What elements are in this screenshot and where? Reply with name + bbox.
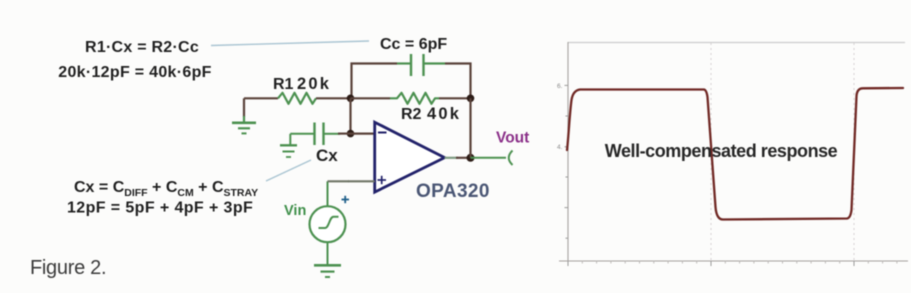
svg-text:R2: R2 — [401, 106, 422, 123]
node A junction — [347, 95, 355, 103]
ground G2 (left of Cx) — [280, 134, 297, 157]
wire feedback column — [469, 98, 471, 158]
node D junction (output) — [467, 154, 475, 162]
svg-text:Well-compensated response: Well-compensated response — [605, 141, 838, 161]
wire ground to Cx — [290, 133, 313, 135]
wire Vin to ground — [327, 242, 329, 265]
op-amp U1 OPA320 — [375, 122, 445, 192]
plus sign at Vin — [342, 196, 350, 203]
scope trace (well-compensated square wave) — [567, 88, 903, 220]
svg-text:OPA320: OPA320 — [416, 181, 490, 202]
wire node A to Cc left — [352, 64, 398, 99]
voltage source Vin — [310, 206, 346, 242]
ground G1 (left of R1) — [232, 98, 256, 133]
node B junction — [347, 130, 355, 138]
callout line to Cc label — [211, 41, 369, 46]
svg-text:4.: 4. — [557, 144, 563, 151]
svg-text:6.: 6. — [557, 83, 563, 90]
wire op-amp output — [445, 157, 458, 159]
wire Vin to plus input — [327, 181, 329, 206]
label R1 20k — [273, 75, 331, 93]
svg-text:12pF = 5pF + 4pF + 3pF: 12pF = 5pF + 4pF + 3pF — [67, 200, 253, 217]
svg-text:R1: R1 — [273, 76, 294, 93]
label R2 40k — [401, 105, 461, 123]
equation R1·Cx = R2·Cc — [85, 39, 199, 56]
svg-text:Vout: Vout — [496, 130, 529, 147]
svg-text:Cx = CDIFF + CCM + CSTRAY: Cx = CDIFF + CCM + CSTRAY — [74, 179, 258, 199]
wire R1 to node A — [316, 97, 351, 99]
ground G3 (below Vin) — [314, 265, 341, 277]
scope y-axis — [557, 42, 568, 261]
node C junction (R2 right) — [467, 95, 475, 103]
scope x-axis — [559, 261, 908, 266]
wire ground to R1 — [244, 97, 278, 99]
wire node A to R2 — [351, 97, 391, 99]
svg-text:R1·Cx = R2·Cc: R1·Cx = R2·Cc — [85, 39, 199, 56]
equation 20k·12pF = 40k·6pF — [58, 64, 211, 81]
wire node B to op-amp minus input — [351, 133, 375, 135]
capacitor C2 Cx — [315, 123, 324, 146]
wire R2 to output column — [439, 97, 471, 99]
scope gridline x=711 — [710, 43, 712, 260]
svg-text:40k: 40k — [427, 105, 461, 123]
resistor R1 — [278, 93, 316, 104]
svg-text:Cx: Cx — [316, 146, 338, 165]
wire Cc right to output column — [445, 64, 471, 99]
callout line to Cx label — [266, 160, 311, 181]
scope top gridline — [568, 42, 905, 44]
capacitor C1 Cc — [411, 54, 424, 76]
svg-text:20k: 20k — [297, 75, 331, 93]
wire Cx to node B — [325, 133, 341, 135]
wire lead Cc right — [425, 62, 446, 64]
wire node A down — [349, 98, 351, 133]
terminal Vout — [509, 151, 513, 166]
svg-text:Figure 2.: Figure 2. — [30, 257, 106, 279]
wire Cx lead dark — [338, 133, 351, 135]
svg-text:Cc = 6pF: Cc = 6pF — [380, 36, 447, 53]
resistor R2 — [390, 93, 439, 104]
wire output to terminal — [471, 157, 507, 159]
svg-text:20k·12pF = 40k·6pF: 20k·12pF = 40k·6pF — [58, 64, 211, 81]
wire lead Cc left — [397, 62, 410, 64]
scope gridline x=854 — [853, 43, 855, 260]
wire op-amp plus input — [348, 180, 375, 182]
svg-text:Vin: Vin — [284, 203, 306, 219]
